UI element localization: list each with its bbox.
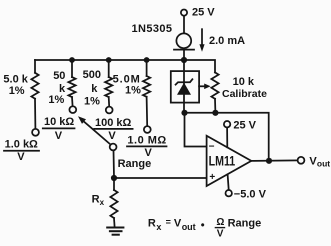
resistor R1 5.0k 1% xyxy=(3,60,38,129)
svg-text:out: out xyxy=(182,222,196,232)
svg-text:LM11: LM11 xyxy=(209,153,236,169)
svg-text:out: out xyxy=(317,159,330,169)
svg-text:1%: 1% xyxy=(125,84,141,96)
node switch contact 100k/V xyxy=(106,107,113,114)
op-amp U1 LM11 xyxy=(207,136,252,186)
label 100 kOhm per V xyxy=(94,117,132,142)
node switch contact 1.0M/V xyxy=(144,126,151,133)
wire switch pivot down xyxy=(113,150,116,178)
zener D2 reference in box xyxy=(171,60,199,113)
svg-text:25 V: 25 V xyxy=(233,119,256,131)
switch S1 Range wiper xyxy=(78,116,151,170)
label 1.0 MOhm per V xyxy=(127,134,167,159)
resistor R2 50k 1% xyxy=(48,60,75,106)
svg-text:k: k xyxy=(91,83,98,95)
node pot bottom junction xyxy=(212,110,218,116)
svg-text:1%: 1% xyxy=(9,85,25,97)
wire feedback to op-amp -input xyxy=(185,113,207,147)
node zener bottom junction xyxy=(181,110,187,116)
svg-text:5.0 k: 5.0 k xyxy=(3,74,28,86)
svg-text:R: R xyxy=(148,217,156,229)
node switch contact 1.0k/V xyxy=(32,129,39,136)
node output junction xyxy=(266,158,272,164)
wire top bus to calibrate pot xyxy=(184,60,215,72)
svg-text:+: + xyxy=(209,172,215,183)
svg-text:V: V xyxy=(108,130,116,142)
svg-text:100 kΩ: 100 kΩ xyxy=(95,117,132,129)
svg-text:500: 500 xyxy=(83,69,101,81)
svg-text:1%: 1% xyxy=(48,94,64,106)
svg-text:V: V xyxy=(17,151,25,163)
svg-text:2.0 mA: 2.0 mA xyxy=(209,35,245,47)
node junction Rx / +input xyxy=(111,175,117,181)
current arrow 2.0 mA xyxy=(199,29,245,52)
node top bus junction R3 xyxy=(106,57,112,63)
node top bus junction R2 xyxy=(69,57,75,63)
svg-text:V: V xyxy=(55,130,63,142)
svg-text:Calibrate: Calibrate xyxy=(222,88,267,100)
resistor R4 5.0M 1% xyxy=(113,60,151,126)
svg-text:x: x xyxy=(100,198,105,207)
label formula Rx = Vout * (Ohm/V) Range xyxy=(148,217,261,240)
label 1.0 kOhm per V xyxy=(4,138,39,163)
svg-text:•: • xyxy=(201,219,205,231)
potentiometer R5 10k Calibrate xyxy=(199,72,267,112)
wire 25V terminal to diode D1 xyxy=(183,16,185,34)
node switch contact 10k/V xyxy=(69,106,76,113)
svg-text:−5.0 V: −5.0 V xyxy=(234,188,267,200)
svg-text:V: V xyxy=(174,217,182,229)
svg-text:1.0 MΩ: 1.0 MΩ xyxy=(127,134,166,146)
svg-text:25 V: 25 V xyxy=(192,7,215,19)
svg-text:1%: 1% xyxy=(84,95,100,107)
node top bus junction R4 xyxy=(144,57,150,63)
svg-text:R: R xyxy=(92,194,100,206)
svg-text:Range: Range xyxy=(118,158,152,170)
svg-text:V: V xyxy=(217,229,224,240)
svg-text:10 k: 10 k xyxy=(233,76,255,88)
node +25V supply terminal xyxy=(181,7,215,19)
svg-text:50: 50 xyxy=(53,70,65,82)
node op-amp V+ 25V terminal xyxy=(224,119,257,147)
svg-text:1.0 kΩ: 1.0 kΩ xyxy=(5,138,38,150)
wire top bus rail xyxy=(35,59,184,61)
svg-text:x: x xyxy=(156,222,161,232)
wire op-amp output xyxy=(251,159,297,162)
resistor R3 500k 1% xyxy=(83,60,113,107)
svg-text:=: = xyxy=(166,217,171,227)
wire feedback bus rail xyxy=(184,113,269,161)
svg-text:1N5305: 1N5305 xyxy=(132,23,173,35)
svg-text:Ω: Ω xyxy=(216,217,224,228)
node op-amp V- -5.0V terminal xyxy=(226,175,267,201)
svg-text:10 kΩ: 10 kΩ xyxy=(44,116,74,128)
label 10 kOhm per V xyxy=(43,116,75,142)
node Vout terminal xyxy=(298,155,331,168)
ground xyxy=(107,228,123,235)
wire junction to op-amp +input xyxy=(114,177,206,179)
resistor RX unknown xyxy=(92,178,118,227)
node top bus junction under D1 xyxy=(181,57,187,63)
svg-text:Range: Range xyxy=(228,218,262,230)
wire diode D1 to top bus xyxy=(183,50,185,60)
diode D1 1N5305 current regulator xyxy=(132,23,195,50)
svg-text:−: − xyxy=(209,141,215,152)
